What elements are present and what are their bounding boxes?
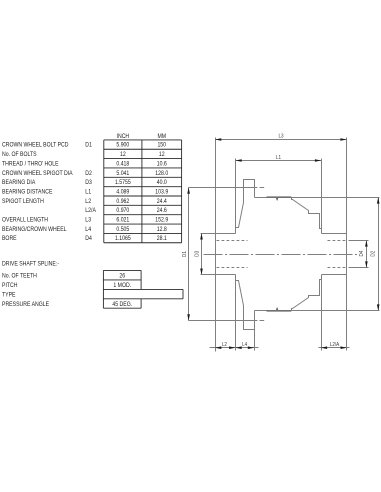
svg-text:OVERALL LENGTH: OVERALL LENGTH xyxy=(2,217,48,224)
svg-text:INCH: INCH xyxy=(117,133,130,140)
svg-text:L1: L1 xyxy=(85,188,91,195)
svg-text:BEARING/CROWN WHEEL: BEARING/CROWN WHEEL xyxy=(2,226,67,233)
svg-text:28.1: 28.1 xyxy=(157,235,168,242)
svg-text:D4: D4 xyxy=(359,251,365,257)
svg-text:0.418: 0.418 xyxy=(116,160,129,167)
svg-text:24.4: 24.4 xyxy=(157,198,168,205)
svg-text:6.021: 6.021 xyxy=(116,217,129,224)
svg-text:0.505: 0.505 xyxy=(116,226,129,233)
svg-text:L4: L4 xyxy=(85,226,91,233)
svg-text:D1: D1 xyxy=(182,251,188,257)
svg-text:12.8: 12.8 xyxy=(157,226,168,233)
svg-text:1.1065: 1.1065 xyxy=(115,235,131,242)
svg-text:D1: D1 xyxy=(85,142,92,149)
svg-text:MM: MM xyxy=(157,133,166,140)
svg-text:12: 12 xyxy=(159,151,165,158)
svg-text:D2: D2 xyxy=(85,170,92,177)
svg-text:40.0: 40.0 xyxy=(157,179,168,186)
svg-text:10.6: 10.6 xyxy=(157,160,168,167)
svg-text:0.970: 0.970 xyxy=(116,207,129,214)
svg-text:150: 150 xyxy=(157,142,166,149)
svg-text:12: 12 xyxy=(120,151,126,158)
svg-text:DRIVE SHAFT SPLINE:-: DRIVE SHAFT SPLINE:- xyxy=(2,261,59,268)
svg-text:L2/A: L2/A xyxy=(330,342,340,348)
svg-text:BEARING DISTANCE: BEARING DISTANCE xyxy=(2,188,52,195)
svg-text:TYPE: TYPE xyxy=(2,292,16,299)
svg-text:BEARING DIA: BEARING DIA xyxy=(2,179,36,186)
svg-text:L2: L2 xyxy=(85,198,91,205)
svg-text:24.6: 24.6 xyxy=(157,207,168,214)
svg-text:D2: D2 xyxy=(371,251,377,257)
svg-text:1 MOD.: 1 MOD. xyxy=(113,282,131,289)
svg-text:26: 26 xyxy=(119,273,125,280)
svg-text:PRESSURE ANGLE: PRESSURE ANGLE xyxy=(2,301,49,308)
svg-text:L1: L1 xyxy=(276,155,281,161)
svg-text:4.089: 4.089 xyxy=(116,188,129,195)
svg-text:No. OF TEETH: No. OF TEETH xyxy=(2,273,37,280)
svg-text:0.962: 0.962 xyxy=(116,198,129,205)
svg-text:PITCH: PITCH xyxy=(2,282,18,289)
svg-text:CROWN WHEEL SPIGOT DIA: CROWN WHEEL SPIGOT DIA xyxy=(2,170,73,177)
svg-text:128.0: 128.0 xyxy=(155,170,168,177)
svg-text:No. OF BOLTS: No. OF BOLTS xyxy=(2,151,37,158)
svg-text:L4: L4 xyxy=(242,342,247,348)
svg-text:1.5755: 1.5755 xyxy=(115,179,131,186)
svg-text:BORE: BORE xyxy=(2,235,17,242)
svg-text:152.9: 152.9 xyxy=(155,217,168,224)
svg-text:D4: D4 xyxy=(85,235,92,242)
svg-text:SPIGOT LENGTH: SPIGOT LENGTH xyxy=(2,198,44,205)
svg-text:L3: L3 xyxy=(278,134,283,140)
svg-text:D3: D3 xyxy=(195,251,201,257)
svg-text:103.9: 103.9 xyxy=(155,188,168,195)
svg-text:5.041: 5.041 xyxy=(116,170,129,177)
svg-text:L3: L3 xyxy=(85,217,91,224)
svg-text:5.900: 5.900 xyxy=(116,142,129,149)
svg-text:CROWN WHEEL BOLT PCD: CROWN WHEEL BOLT PCD xyxy=(2,142,69,149)
svg-text:L2: L2 xyxy=(222,342,227,348)
svg-text:45 DEG.: 45 DEG. xyxy=(112,301,132,308)
svg-text:D3: D3 xyxy=(85,179,92,186)
svg-text:THREAD / THRO' HOLE: THREAD / THRO' HOLE xyxy=(2,160,59,167)
svg-text:L2/A: L2/A xyxy=(85,207,96,214)
